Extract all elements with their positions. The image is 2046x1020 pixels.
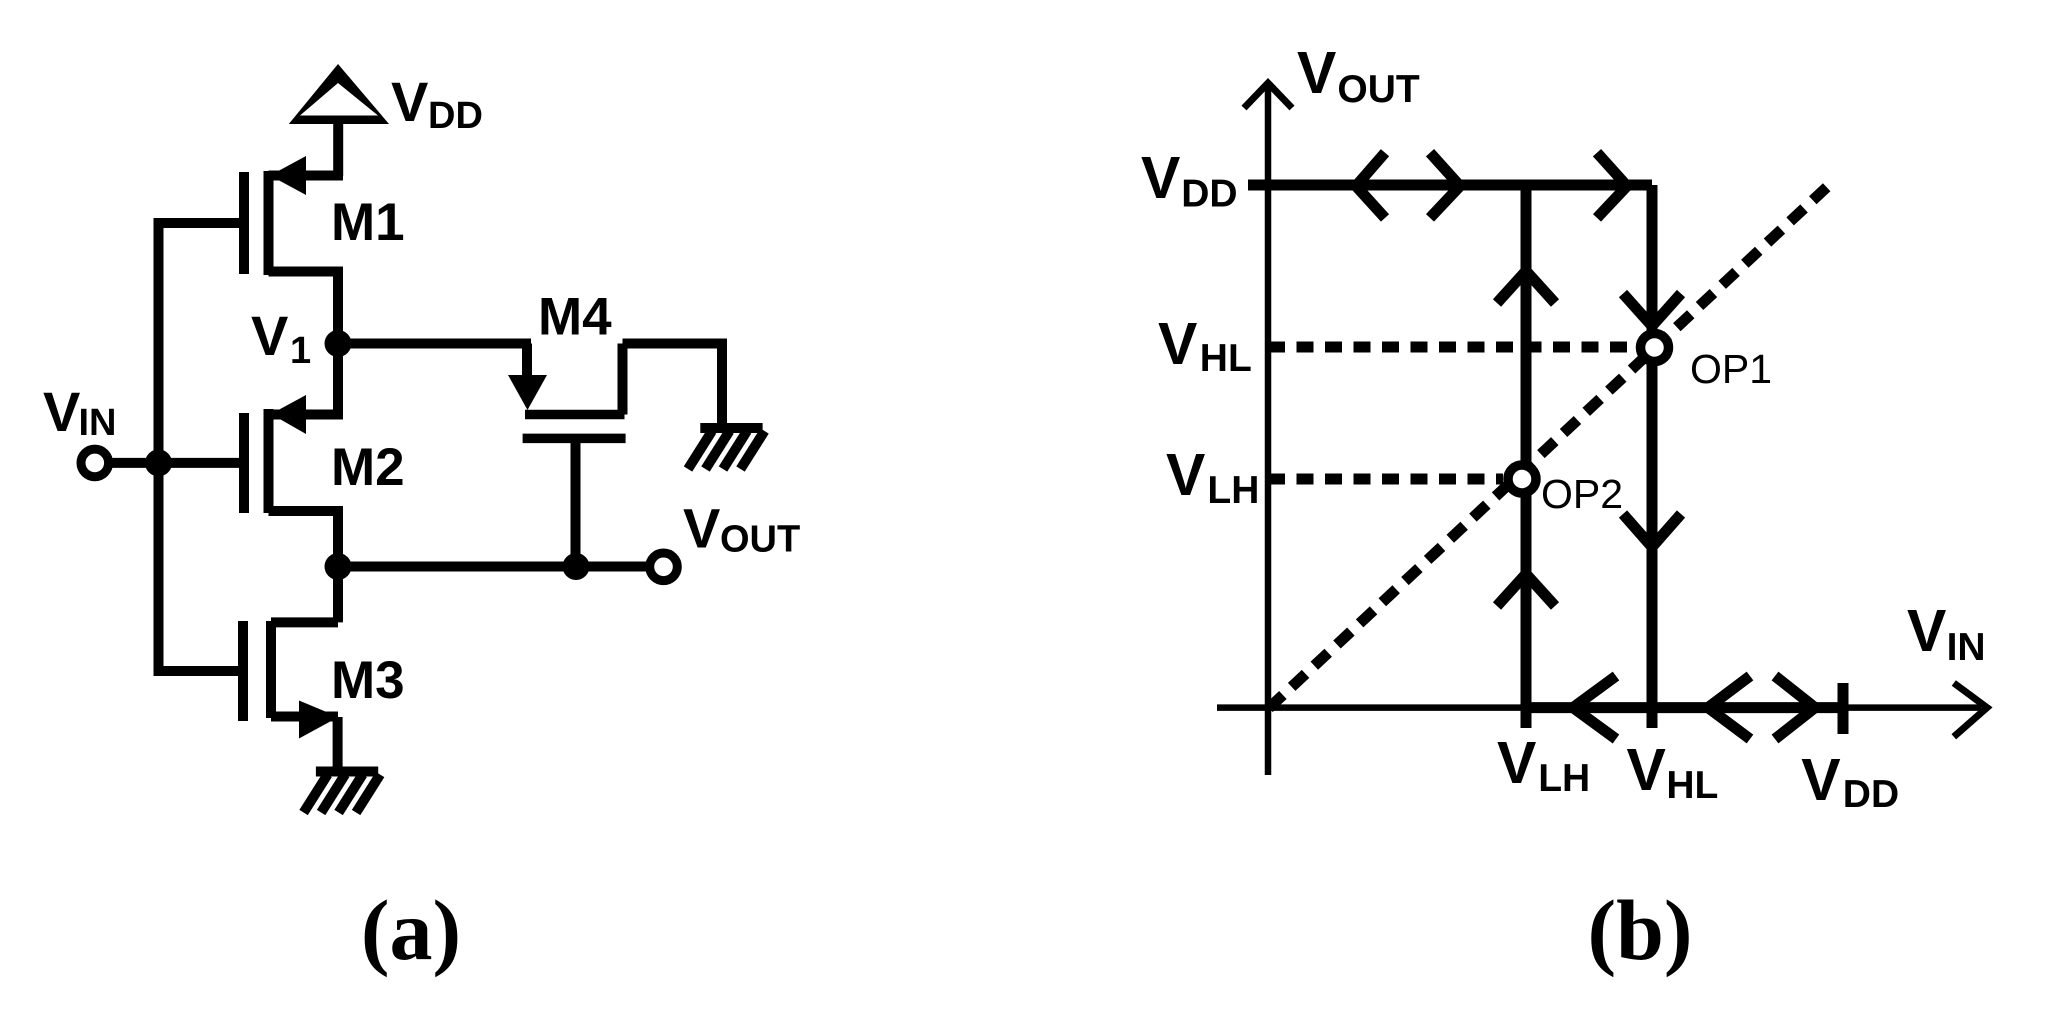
transistor M1 (PMOS) xyxy=(244,156,343,275)
label VOUT xyxy=(683,497,800,561)
y axis VOUT xyxy=(1244,83,1292,775)
svg-text:HL: HL xyxy=(1666,764,1718,807)
chevron right on x overlay xyxy=(1775,676,1815,739)
svg-text:V: V xyxy=(1297,40,1336,106)
svg-text:IN: IN xyxy=(1947,626,1986,669)
ground (right of M4) xyxy=(688,428,765,469)
power VDD symbol xyxy=(289,64,389,176)
dashed diagonal VOUT=VIN xyxy=(1269,187,1827,708)
svg-text:LH: LH xyxy=(1538,757,1590,800)
node VIN junction xyxy=(145,449,172,476)
svg-text:(b): (b) xyxy=(1587,882,1692,978)
chevron left 2 on x overlay xyxy=(1708,676,1750,739)
svg-text:OUT: OUT xyxy=(720,519,800,561)
svg-text:M4: M4 xyxy=(538,288,612,347)
label VDD (y axis) xyxy=(1141,145,1238,216)
svg-text:V: V xyxy=(251,304,288,367)
wire M1 drain to node V1 xyxy=(333,272,343,349)
svg-text:OP1: OP1 xyxy=(1690,346,1772,392)
label VHL (x axis) xyxy=(1627,737,1719,807)
node V1 xyxy=(325,330,352,357)
transistor M3 (NMOS) xyxy=(243,621,339,739)
curve VDD top line xyxy=(1248,180,1652,191)
svg-text:HL: HL xyxy=(1200,337,1252,380)
svg-text:V: V xyxy=(1158,311,1197,377)
wire M3 source to ground xyxy=(333,717,343,773)
tick VDD on x axis xyxy=(1838,683,1849,734)
wire V1 to M2 source xyxy=(333,344,343,416)
node OP2 xyxy=(1508,465,1536,493)
svg-text:M3: M3 xyxy=(331,651,405,710)
wire M4 drain to ground xyxy=(623,344,723,431)
chevron left on VDD line xyxy=(1356,153,1385,218)
node OP1 xyxy=(1641,334,1669,362)
svg-text:M2: M2 xyxy=(331,438,405,497)
chevron right on VDD line xyxy=(1430,153,1460,218)
svg-text:V: V xyxy=(1497,730,1536,796)
label VIN (axis) xyxy=(1907,598,1986,669)
dashed line VLH level xyxy=(1268,474,1503,485)
label VHL (y axis) xyxy=(1158,311,1252,380)
svg-text:M1: M1 xyxy=(331,193,405,252)
svg-text:V: V xyxy=(1141,145,1180,211)
chevron up 1 on VLH xyxy=(1497,271,1555,303)
svg-text:DD: DD xyxy=(428,95,483,137)
curve VHL vertical xyxy=(1647,185,1658,728)
label VLH (y axis) xyxy=(1166,442,1259,512)
chevron right 2 on VDD line xyxy=(1597,153,1627,218)
node output junction xyxy=(325,553,352,580)
svg-text:OUT: OUT xyxy=(1337,68,1420,111)
svg-text:V: V xyxy=(1166,442,1205,508)
label VDD (x axis) xyxy=(1801,747,1899,816)
label VLH (x axis) xyxy=(1497,730,1590,800)
svg-text:IN: IN xyxy=(79,402,117,444)
chevron down 1 on VHL xyxy=(1623,294,1681,326)
ground (below M3) xyxy=(304,772,381,813)
node M4 gate junction xyxy=(563,553,590,580)
svg-text:V: V xyxy=(1907,598,1946,664)
wire output node to M3 drain xyxy=(333,566,343,622)
wire M2 drain to output node xyxy=(333,511,343,566)
transistor M4 (PMOS, rotated) xyxy=(508,344,626,568)
dashed line VHL level xyxy=(1268,342,1636,353)
label VIN xyxy=(43,380,117,444)
svg-text:V: V xyxy=(683,497,720,560)
wire VIN to M2 gate xyxy=(109,458,244,468)
svg-text:V: V xyxy=(1801,747,1840,813)
svg-text:(a): (a) xyxy=(361,882,461,978)
chevron down 2 on VHL xyxy=(1623,514,1681,547)
chevron left 1 on x overlay xyxy=(1573,676,1616,739)
curve VLH vertical xyxy=(1521,185,1532,728)
svg-text:V: V xyxy=(43,380,80,443)
svg-text:OP2: OP2 xyxy=(1541,471,1623,517)
x axis VIN xyxy=(1217,683,1987,737)
svg-text:V: V xyxy=(391,70,428,133)
label VOUT (axis) xyxy=(1297,40,1420,111)
wire V1 to M4 source xyxy=(338,339,531,349)
terminal VIN xyxy=(81,449,109,477)
terminal VOUT xyxy=(650,553,678,581)
svg-text:LH: LH xyxy=(1207,469,1259,512)
svg-text:DD: DD xyxy=(1181,173,1237,216)
svg-text:1: 1 xyxy=(290,330,311,372)
chevron up 2 on VLH xyxy=(1497,574,1555,606)
wire output row xyxy=(338,562,646,572)
transistor M2 (PMOS) xyxy=(244,395,343,513)
curve x-axis overlay segment xyxy=(1526,702,1842,713)
label V1 xyxy=(251,304,311,372)
svg-text:DD: DD xyxy=(1843,773,1899,816)
svg-text:V: V xyxy=(1627,737,1666,803)
label VDD (supply) xyxy=(391,70,483,137)
wire gate rail (M1 gate to M3 gate) xyxy=(159,223,245,671)
